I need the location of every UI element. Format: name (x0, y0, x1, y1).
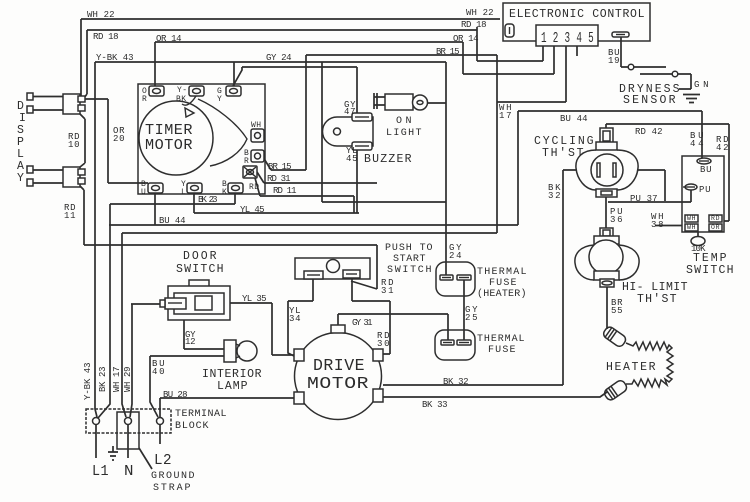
svg-text:R: R (244, 157, 249, 166)
svg-text:24: 24 (449, 251, 462, 261)
svg-text:WH 22: WH 22 (87, 10, 115, 20)
svg-text:GY 31: GY 31 (352, 318, 373, 328)
svg-text:SWITCH: SWITCH (387, 265, 432, 276)
svg-text:LIGHT: LIGHT (386, 128, 422, 139)
svg-text:34: 34 (289, 314, 301, 324)
svg-text:RD 18: RD 18 (461, 20, 487, 30)
svg-text:31: 31 (381, 286, 394, 296)
svg-text:MOTOR: MOTOR (307, 375, 369, 394)
svg-text:Y: Y (17, 172, 24, 185)
svg-text:THERMAL: THERMAL (477, 267, 527, 278)
svg-text:N: N (124, 463, 134, 480)
svg-text:BK 32: BK 32 (443, 377, 469, 387)
svg-text:Y-BK 43: Y-BK 43 (96, 53, 134, 63)
svg-text:WH 22: WH 22 (466, 8, 494, 18)
svg-text:BUZZER: BUZZER (364, 153, 412, 166)
svg-text:45: 45 (346, 154, 358, 164)
svg-text:PU: PU (699, 185, 711, 195)
svg-text:10: 10 (68, 140, 80, 150)
svg-text:36: 36 (610, 215, 623, 225)
svg-text:OR: OR (711, 224, 720, 231)
svg-text:L2: L2 (154, 452, 172, 469)
svg-text:START: START (393, 254, 426, 265)
svg-text:20: 20 (113, 134, 125, 144)
svg-text:R: R (142, 95, 147, 104)
svg-text:LAMP: LAMP (217, 380, 248, 393)
svg-text:RD: RD (249, 183, 260, 192)
svg-text:11: 11 (64, 211, 76, 221)
svg-text:BK 23: BK 23 (98, 366, 108, 392)
svg-text:FUSE: FUSE (488, 345, 516, 356)
svg-text:YL 45: YL 45 (240, 205, 265, 215)
svg-text:OR 14: OR 14 (156, 34, 182, 44)
svg-text:BU 28: BU 28 (163, 390, 188, 400)
svg-text:YL 35: YL 35 (242, 294, 267, 304)
svg-text:TH'ST: TH'ST (637, 293, 677, 306)
svg-text:GROUND: GROUND (151, 471, 195, 482)
svg-text:TH'ST: TH'ST (542, 147, 584, 160)
svg-text:12: 12 (185, 337, 196, 347)
svg-text:WH: WH (687, 224, 696, 231)
svg-text:WH: WH (251, 121, 262, 130)
svg-text:WH: WH (687, 215, 696, 222)
svg-text:1 2 3 4 5: 1 2 3 4 5 (541, 30, 594, 47)
svg-text:Y-: Y- (177, 86, 188, 95)
svg-text:RD 42: RD 42 (635, 127, 663, 137)
svg-text:WH 17: WH 17 (112, 366, 122, 392)
svg-text:30: 30 (377, 339, 390, 349)
svg-text:42: 42 (716, 143, 729, 153)
svg-text:47: 47 (344, 107, 356, 117)
svg-text:BU 44: BU 44 (560, 114, 588, 124)
svg-text:BR 15: BR 15 (268, 162, 292, 172)
svg-text:Y-BK 43: Y-BK 43 (83, 362, 93, 400)
svg-text:BK 33: BK 33 (422, 400, 448, 410)
svg-text:THERMAL: THERMAL (477, 334, 525, 345)
svg-text:RD: RD (711, 215, 720, 222)
svg-text:K: K (222, 188, 227, 197)
svg-text:MOTOR: MOTOR (145, 137, 193, 154)
svg-text:SWITCH: SWITCH (176, 263, 224, 276)
svg-text:BU 44: BU 44 (159, 216, 186, 226)
svg-text:RD 31: RD 31 (267, 174, 291, 184)
svg-text:40: 40 (152, 367, 165, 377)
svg-text:Y: Y (217, 95, 222, 104)
svg-text:GY 24: GY 24 (266, 53, 292, 63)
svg-text:19: 19 (608, 56, 620, 66)
svg-text:25: 25 (465, 313, 478, 323)
svg-text:DRIVE: DRIVE (313, 357, 365, 376)
svg-text:RD 18: RD 18 (93, 32, 119, 42)
svg-text:BK 23: BK 23 (198, 195, 218, 205)
svg-text:(HEATER): (HEATER) (477, 288, 527, 300)
svg-text:WH 29: WH 29 (123, 366, 133, 392)
svg-text:U: U (141, 188, 146, 197)
svg-text:DOOR: DOOR (183, 250, 217, 263)
svg-text:38: 38 (651, 220, 664, 230)
svg-text:BU: BU (700, 165, 712, 175)
svg-text:32: 32 (548, 191, 561, 201)
svg-text:BLOCK: BLOCK (175, 421, 209, 432)
svg-text:BR 15: BR 15 (436, 47, 460, 57)
svg-text:L: L (181, 188, 186, 197)
svg-text:L1: L1 (92, 463, 109, 480)
svg-text:OR 14: OR 14 (453, 34, 479, 44)
svg-text:PUSH TO: PUSH TO (385, 243, 433, 254)
svg-text:TERMINAL: TERMINAL (175, 409, 227, 420)
svg-text:PU 37: PU 37 (630, 194, 658, 204)
svg-text:STRAP: STRAP (153, 483, 191, 494)
svg-text:SWITCH: SWITCH (686, 264, 734, 277)
svg-text:17: 17 (499, 111, 512, 121)
svg-text:BK: BK (176, 95, 187, 104)
svg-text:ELECTRONIC CONTROL: ELECTRONIC CONTROL (509, 8, 645, 21)
svg-text:55: 55 (611, 306, 623, 316)
svg-text:RD 11: RD 11 (273, 186, 297, 196)
svg-text:FUSE: FUSE (489, 278, 517, 289)
